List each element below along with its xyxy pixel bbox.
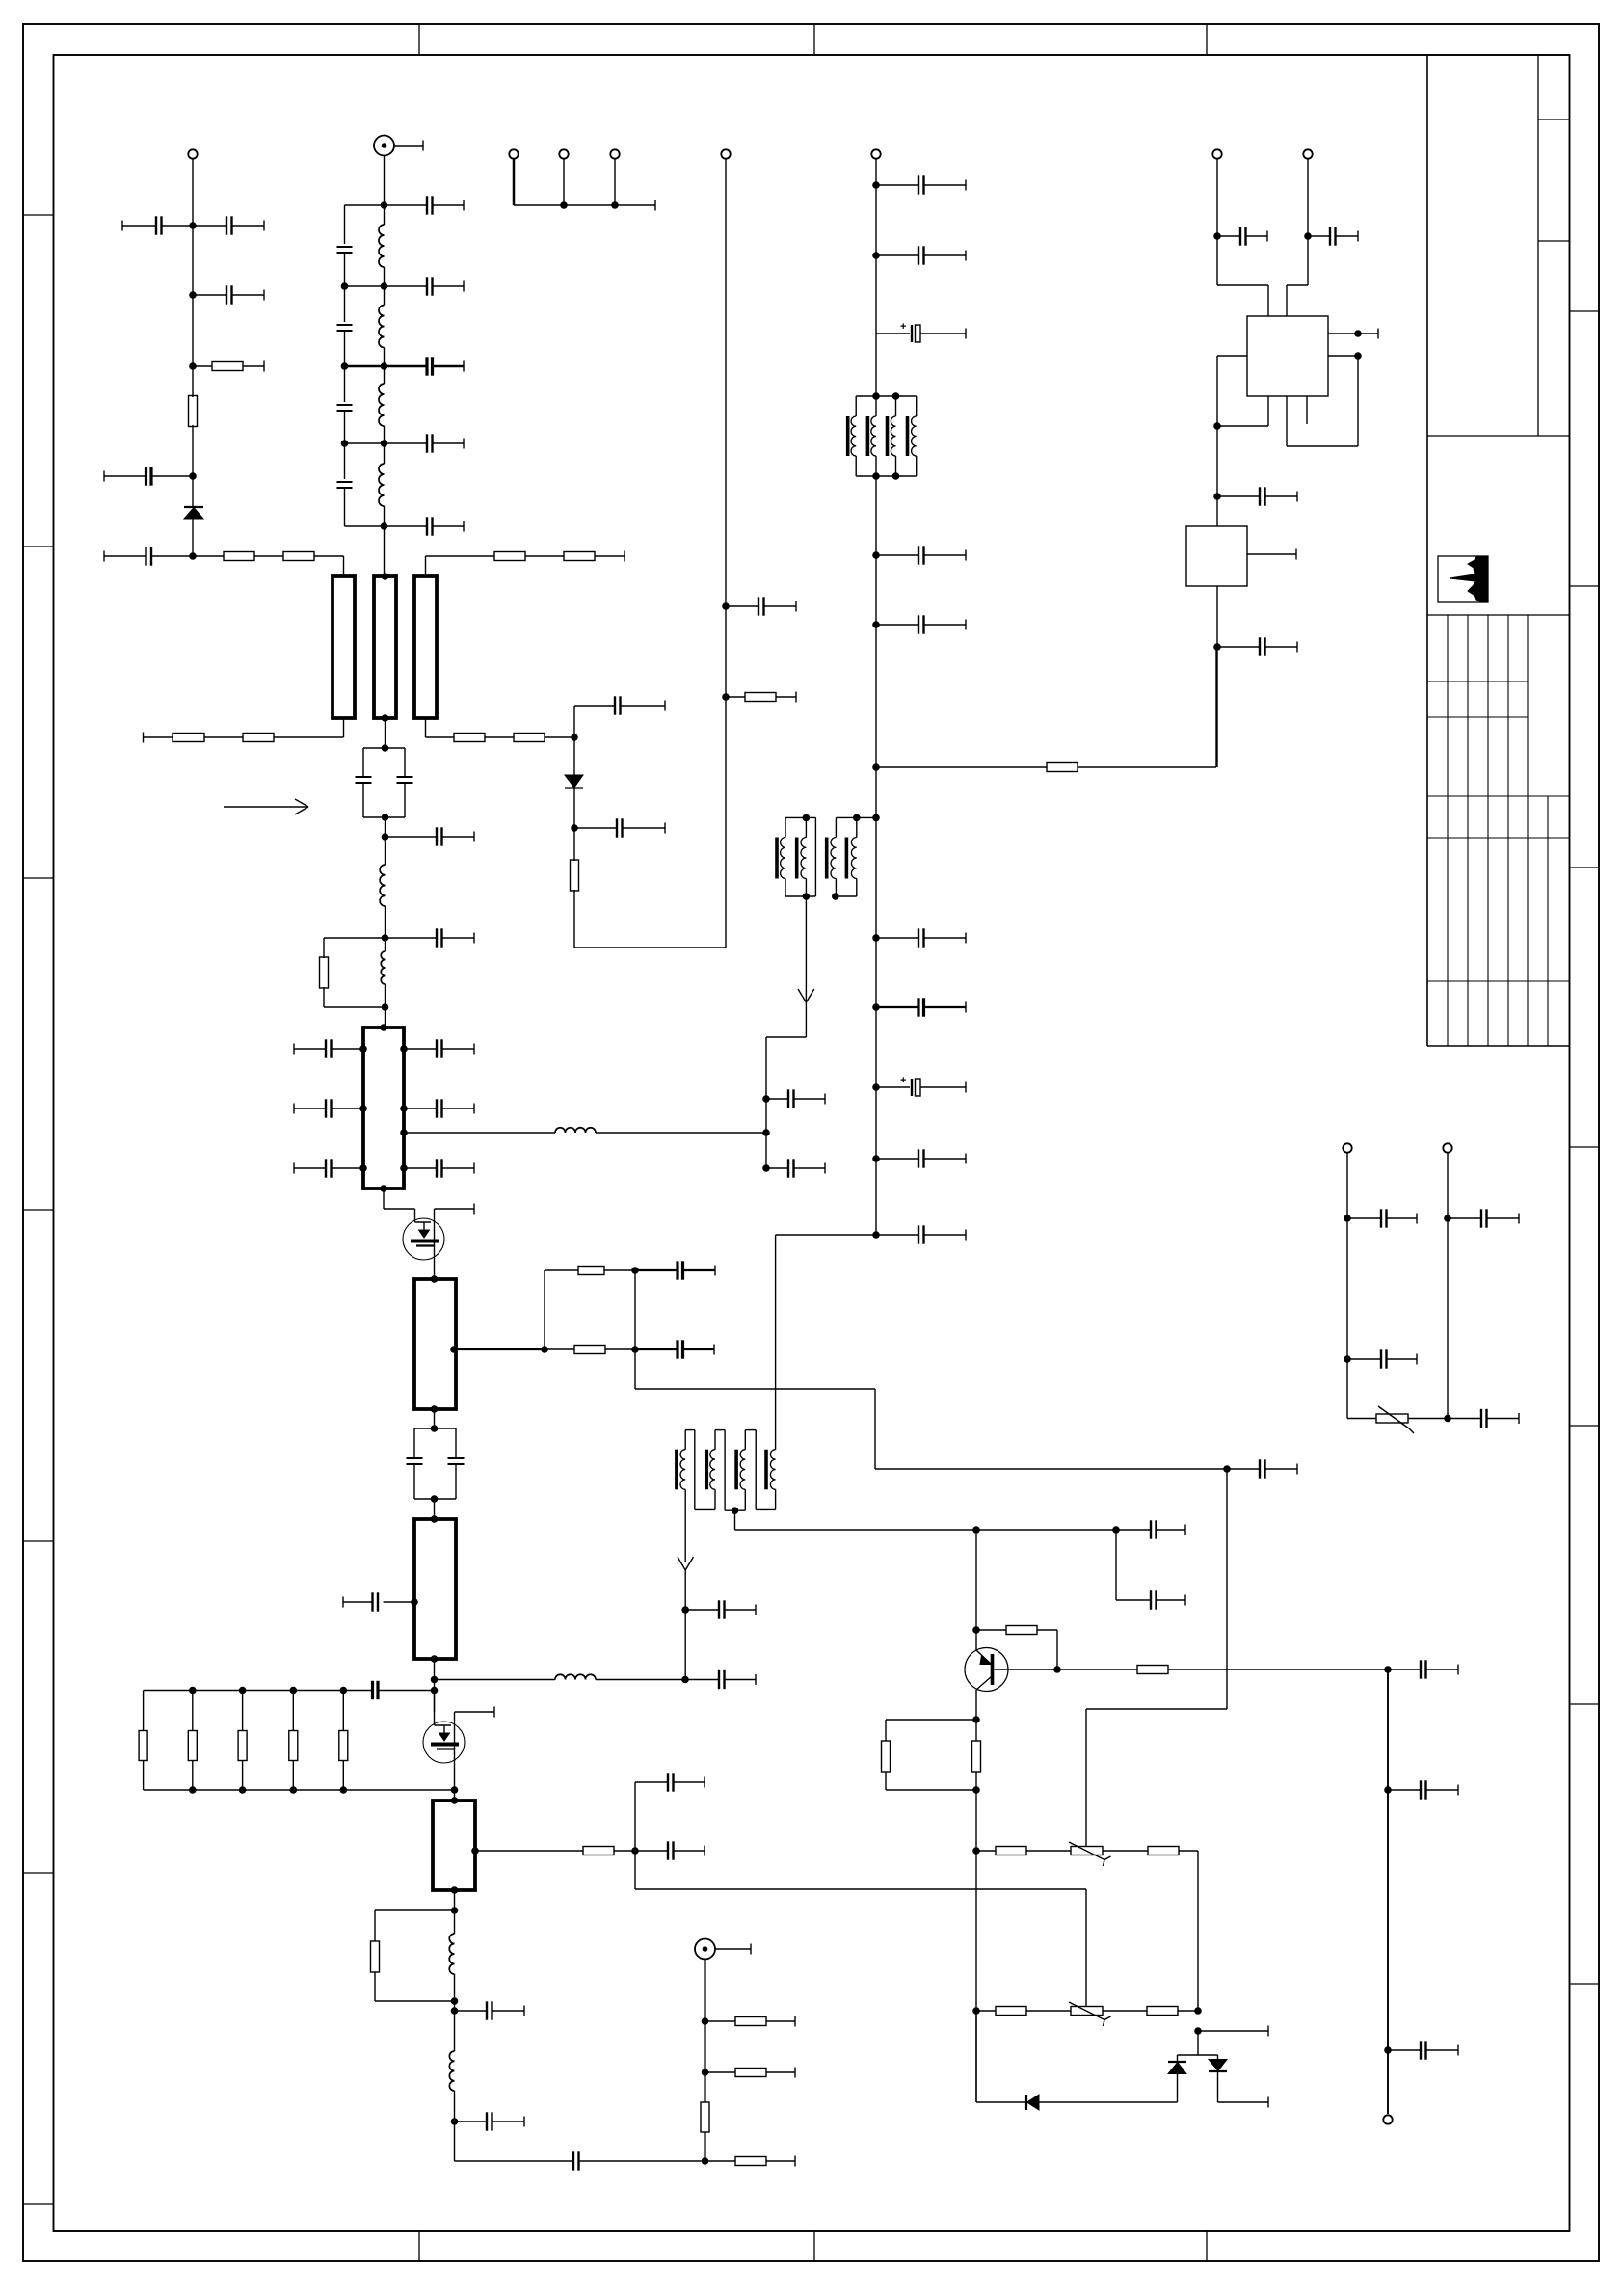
varistor RV3 (1347, 1406, 1448, 1433)
capacitor C22 (400, 1159, 474, 1177)
wire (725, 159, 727, 948)
stub W7 (433, 1797, 475, 1894)
capacitor C48 (1217, 227, 1267, 245)
capacitor C4 (104, 467, 193, 485)
inductor L8 (555, 1674, 596, 1679)
resistor R8 (243, 734, 344, 742)
capacitor C43 (876, 928, 966, 947)
node (1194, 2027, 1202, 2035)
node (702, 2017, 709, 2025)
pin wire (1247, 549, 1296, 560)
node (872, 1231, 880, 1239)
stub W5 (414, 1275, 456, 1413)
node (189, 552, 197, 560)
node (872, 934, 880, 942)
node (972, 1847, 980, 1855)
node (631, 1847, 639, 1855)
node (722, 602, 730, 610)
terminal P3 (559, 149, 568, 158)
resistor R22 (705, 2068, 796, 2078)
wire (1178, 2031, 1218, 2055)
wire (976, 2101, 1026, 2103)
capacitor C37 (876, 246, 966, 264)
logo box (1438, 556, 1488, 602)
stub W2 (374, 573, 396, 722)
wire (384, 156, 386, 206)
capacitor C21 (400, 1099, 474, 1117)
IC U2 (1186, 526, 1247, 586)
wire (681, 1570, 689, 1680)
wire bold (702, 1960, 709, 2165)
capacitor C10 (385, 196, 465, 214)
node (451, 2118, 459, 2125)
wire (384, 526, 386, 576)
svg-text:+: + (900, 1075, 906, 1086)
node (872, 252, 880, 259)
node (400, 1129, 408, 1136)
node (972, 1716, 980, 1723)
resistor R13 (545, 1267, 639, 1275)
resistor R12 (545, 1346, 635, 1354)
wire (382, 718, 389, 752)
wire bold (456, 1346, 548, 1353)
terminal P1 (188, 149, 197, 158)
resistor R34 (976, 2007, 1071, 2016)
capacitor C61 (1448, 1409, 1519, 1428)
capacitor C30 (455, 2001, 525, 2019)
wire (1215, 647, 1217, 767)
node (1444, 1215, 1451, 1222)
node (189, 362, 197, 370)
node row (341, 282, 388, 290)
wire (544, 1270, 545, 1349)
RF connector J2 (695, 1939, 751, 1960)
diode D1 (184, 507, 203, 519)
wire (343, 718, 345, 737)
wire (1216, 426, 1218, 526)
wire (573, 737, 575, 775)
resistor R30 (882, 1720, 977, 1790)
wire (431, 1409, 439, 1432)
resistor R32 (976, 1847, 1071, 1855)
wire (431, 1499, 439, 1523)
wire to pot2 (635, 1889, 1086, 2007)
inductor L3 (379, 366, 385, 443)
node row (345, 201, 388, 209)
node (972, 1786, 980, 1794)
annotation arrow down (798, 989, 814, 1002)
capacitor C55 (1388, 1660, 1458, 1678)
capacitor C60 (1448, 1209, 1519, 1227)
resistor R25 (571, 828, 579, 948)
capacitor C14 (385, 517, 465, 535)
node (872, 763, 880, 771)
resistor R24 (705, 2156, 796, 2167)
title block outline (1427, 55, 1570, 1046)
node (762, 1095, 770, 1103)
stub W1 (333, 576, 355, 718)
capacitor C26 (685, 1670, 756, 1689)
wire (343, 556, 345, 576)
wire bold (513, 159, 516, 205)
resistor R6 (564, 551, 625, 562)
capacitor C57 (1388, 2041, 1458, 2059)
resistor R1 (193, 361, 264, 372)
potentiometer RV1 (1069, 1842, 1111, 1866)
inductor L1 (379, 205, 385, 286)
capacitor C40 (876, 615, 966, 633)
pin wire (1217, 396, 1268, 426)
wire (1346, 1153, 1348, 1419)
capacitor C59 (1347, 1349, 1417, 1368)
terminal P10 (1343, 1143, 1351, 1152)
RF connector J1 (374, 136, 423, 156)
wire (563, 159, 565, 205)
transformer T3 T4 (777, 814, 880, 900)
node (631, 1346, 639, 1353)
capacitor C19 (294, 1159, 367, 1177)
capacitor C41 (766, 1089, 825, 1108)
capacitor C50 (1217, 487, 1297, 505)
capacitor C28 (635, 1841, 705, 1859)
wire (571, 788, 578, 832)
wire (425, 556, 427, 576)
capacitor C1 (122, 216, 193, 234)
diode D2 (565, 775, 583, 788)
capacitor C17 (294, 1039, 367, 1057)
capacitor C52 (1116, 1520, 1185, 1538)
capacitor C25 (343, 1592, 418, 1611)
node (382, 1003, 389, 1011)
feedback wire (635, 1349, 1227, 1469)
wire (431, 1659, 439, 1712)
node (450, 1346, 458, 1353)
node (189, 472, 197, 480)
node (1444, 1415, 1451, 1423)
transistor Q1 (384, 1188, 474, 1279)
wire (735, 1526, 1120, 1534)
resistor bank R14-R18 (139, 1687, 454, 1794)
potentiometer RV2 (1069, 2002, 1111, 2026)
capacitor rail C6-C9 (337, 205, 353, 526)
node row bold (341, 362, 388, 370)
wire (875, 159, 877, 1235)
wire (805, 896, 807, 1002)
wire (1217, 159, 1268, 316)
wire (192, 159, 194, 556)
pin wire (1287, 352, 1362, 446)
terminal P5 (721, 149, 730, 158)
resistor R33 (1103, 1847, 1198, 1855)
resistor R31 (972, 1720, 981, 1790)
capacitor C31 (455, 2112, 525, 2130)
capacitor C16 (386, 928, 475, 947)
node (1304, 232, 1312, 240)
wire (382, 817, 389, 841)
resistor R21 (705, 2016, 796, 2027)
node (1344, 1355, 1351, 1363)
inductor L5 (380, 837, 385, 938)
IC U1 (1247, 316, 1328, 396)
capacitor C62 (685, 1600, 756, 1618)
wire (1447, 1153, 1449, 1419)
annotation arrow (224, 799, 308, 814)
stub W6 (414, 1519, 456, 1663)
capacitor C44 bold (876, 998, 966, 1016)
capacitor C49 (1308, 227, 1358, 245)
resistor R23 (701, 2102, 709, 2132)
capacitor C12 (385, 357, 465, 375)
wire (425, 718, 427, 737)
transistor Q3 (965, 1648, 1008, 1721)
capacitor C42 (762, 1159, 825, 1177)
wire (766, 1002, 806, 1168)
wiper wire (1086, 1465, 1231, 1846)
transformer T5 T6 (677, 1430, 776, 1514)
terminal P7 (1212, 149, 1221, 158)
wire (734, 1510, 736, 1530)
wire (975, 2011, 977, 2102)
trimmer capacitor CV1 (356, 748, 413, 821)
wire (454, 2122, 456, 2161)
capacitor C54 (1227, 1459, 1297, 1478)
inductor L10 (449, 2011, 454, 2122)
resistor R5 (426, 552, 565, 561)
wire (1194, 1851, 1202, 2015)
node (571, 734, 578, 741)
node (451, 1997, 459, 2015)
node (382, 934, 389, 942)
resistor R4 (283, 552, 344, 561)
inductor L2 (379, 286, 385, 366)
title block grid (1427, 615, 1570, 1046)
pin stub (1306, 396, 1308, 424)
capacitor C20 (400, 1039, 474, 1057)
node (872, 1003, 880, 1011)
wire (1115, 1530, 1117, 1600)
wire (451, 1890, 459, 1934)
collector rail (1384, 1666, 1392, 2114)
capacitor C56 (1388, 1780, 1458, 1799)
bus wire (514, 200, 655, 211)
capacitor C39 (876, 546, 966, 564)
node (702, 2069, 709, 2076)
resistor R28 (976, 1626, 1061, 1673)
terminal P8 (1303, 149, 1312, 158)
inductor L6 (381, 938, 385, 1007)
node row (341, 440, 388, 447)
resistor R2 (189, 396, 198, 427)
resistor R7 (144, 733, 244, 743)
node (189, 222, 197, 229)
resistor R19 (475, 1847, 635, 1855)
capacitor C53 (1116, 1590, 1185, 1609)
node (872, 551, 880, 559)
node (189, 291, 197, 299)
logo mark (1450, 556, 1488, 602)
capacitor C33 (574, 818, 665, 837)
stub W3 (414, 576, 437, 718)
capacitor C24 bold (635, 1261, 715, 1279)
node (1213, 232, 1221, 240)
left margin zone ticks (23, 215, 54, 2204)
wire (385, 1007, 386, 1028)
node (1344, 1215, 1351, 1222)
wire to mixer (404, 1132, 555, 1134)
node (872, 1083, 880, 1091)
wire (1198, 2026, 1268, 2037)
transformer T1 T2 (848, 392, 917, 480)
node (872, 1155, 880, 1162)
resistor R11 (320, 938, 386, 1007)
wire (975, 1790, 977, 2102)
wire (1218, 2097, 1269, 2108)
resistor R9 (426, 734, 515, 742)
node (471, 1847, 479, 1855)
base wire (995, 1669, 1058, 1670)
trimmer capacitor CV2 (407, 1428, 465, 1503)
inductor L9 (449, 1934, 454, 2011)
right margin zone ticks (1570, 311, 1600, 1984)
capacitor C13 (385, 434, 465, 452)
node (872, 621, 880, 628)
wire (634, 1782, 636, 1889)
capacitor C46 (876, 1149, 966, 1167)
capacitor C38 electrolytic (876, 321, 966, 342)
mixer output wire (684, 1489, 686, 1562)
wire (596, 1132, 766, 1134)
annotation arrow down (678, 1557, 694, 1570)
wire (776, 1235, 876, 1450)
capacitor C2 (193, 216, 264, 234)
capacitor C3 (193, 285, 264, 304)
transistor Q2 (423, 1691, 494, 1802)
terminal P4 (610, 149, 619, 158)
diode D5 (1209, 2055, 1227, 2102)
node (1213, 643, 1221, 651)
pin wire (1213, 356, 1247, 430)
capacitor C32 (455, 2151, 705, 2170)
diode D3 (1026, 2095, 1178, 2110)
capacitor C34 (615, 696, 665, 714)
terminal P11 (1443, 1143, 1451, 1152)
node (722, 693, 730, 701)
bottom margin zone ticks (419, 2231, 1207, 2261)
capacitor C23 bold (635, 1340, 714, 1358)
capacitor C11 (385, 277, 465, 295)
top margin zone ticks (419, 24, 1207, 55)
node (972, 2007, 980, 2015)
capacitor C35 (726, 597, 796, 615)
wire (1216, 586, 1218, 767)
node wire (574, 706, 615, 737)
node row (345, 522, 388, 530)
wire (876, 766, 1047, 768)
capacitor C5 (104, 547, 193, 565)
wire (435, 1679, 556, 1681)
resistor R35 (1103, 2007, 1198, 2016)
capacitor C58 (1347, 1209, 1417, 1227)
capacitor C27 bold (343, 1681, 434, 1699)
capacitor C18 (294, 1099, 367, 1117)
wire (614, 159, 616, 205)
diode D4 (1168, 2055, 1186, 2102)
wire (574, 947, 726, 948)
capacitor C47 (876, 1225, 966, 1243)
terminal P6 (871, 149, 880, 158)
pin wire (1328, 329, 1378, 339)
wire (1287, 159, 1308, 316)
resistor R20 (371, 1910, 455, 2001)
resistor R27 (1047, 763, 1216, 772)
capacitor C51 (1217, 637, 1297, 655)
wire (634, 1270, 636, 1349)
inductor L7 (555, 1128, 596, 1133)
wire (596, 1676, 689, 1684)
capacitor C36 (876, 175, 966, 194)
wire (972, 1530, 980, 1650)
resistor R26 (726, 692, 796, 703)
inductor L4 (379, 443, 385, 526)
node (1213, 493, 1221, 500)
capacitor C29 (635, 1773, 705, 1791)
node (872, 181, 880, 189)
terminal P2 (509, 149, 518, 158)
resistor R29 (1057, 1666, 1388, 1674)
svg-text:+: + (900, 321, 906, 333)
resistor R10 (514, 734, 574, 742)
capacitor C45 electrolytic (876, 1075, 966, 1096)
resistor R3 (193, 552, 283, 561)
node (762, 1129, 770, 1136)
capacitor C15 (386, 827, 475, 845)
stub W4 (363, 1024, 404, 1192)
terminal P9 (1383, 2115, 1392, 2123)
